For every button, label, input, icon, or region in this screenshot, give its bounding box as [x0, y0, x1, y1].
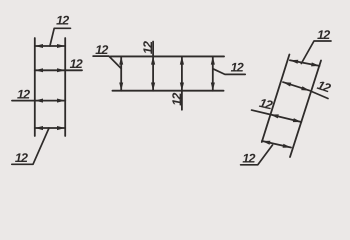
- leader for dim 4 (middle ladder): [213, 69, 245, 75]
- leader for dim 4 (left ladder): [12, 128, 49, 164]
- dimension line 4 (left ladder): [35, 127, 65, 129]
- leader for dim 1 (middle ladder): [93, 56, 121, 68]
- leader for dim 1 (right ladder): [301, 41, 331, 64]
- dimension line 1 (right ladder): [290, 60, 320, 66]
- extension line right rail (left ladder): [64, 38, 66, 136]
- arrowhead 4L (left ladder): [35, 126, 43, 130]
- svg-text:12: 12: [70, 57, 83, 71]
- dimension line 4 (middle ladder): [212, 56, 214, 90]
- arrowhead 2T (middle ladder): [151, 56, 155, 64]
- dimension line 2 (left ladder): [35, 69, 82, 71]
- dimension line 4 (right ladder): [262, 141, 291, 148]
- arrowhead 3R (right ladder): [293, 118, 302, 122]
- leader for dim 4 (right ladder): [241, 145, 273, 165]
- arrowhead 1R (left ladder): [57, 44, 65, 48]
- arrowhead 2L (left ladder): [35, 68, 43, 72]
- svg-text:12: 12: [170, 93, 184, 106]
- svg-text:12: 12: [56, 14, 69, 28]
- arrowhead 1B (middle ladder): [119, 83, 123, 91]
- dimension line 1 (middle ladder): [120, 56, 122, 90]
- arrowhead 4B (middle ladder): [211, 83, 215, 91]
- arrowhead 4R (left ladder): [57, 126, 65, 130]
- arrowhead 1T (middle ladder): [119, 56, 123, 64]
- dimension line 3 with extension below (middle ladder): [181, 56, 183, 109]
- dimension line 3 (left ladder): [12, 100, 65, 102]
- arrowhead 4T (middle ladder): [211, 56, 215, 64]
- dimension line 2 with extension above (middle ladder): [152, 42, 154, 91]
- extension line left rail (right ladder): [262, 55, 290, 143]
- arrowhead 3B (middle ladder): [180, 83, 184, 91]
- arrowhead 1L (left ladder): [35, 44, 43, 48]
- leader for dim 1 (left ladder): [50, 28, 71, 46]
- svg-text:12: 12: [317, 28, 330, 42]
- arrowhead 3T (middle ladder): [180, 56, 184, 64]
- arrowhead 2L (right ladder): [283, 82, 291, 86]
- arrowhead 3L (left ladder): [35, 99, 43, 103]
- extension line bottom (middle ladder): [113, 90, 224, 92]
- arrowhead 4L (right ladder): [262, 141, 270, 145]
- arrowhead 1R (right ladder): [311, 62, 319, 66]
- svg-text:12: 12: [95, 43, 108, 57]
- dimension line 3 with extension (right ladder): [252, 110, 302, 122]
- svg-text:12: 12: [15, 151, 28, 165]
- arrowhead 2R (left ladder): [57, 68, 65, 72]
- arrowhead 2B (middle ladder): [151, 83, 155, 91]
- svg-text:12: 12: [231, 61, 244, 75]
- arrowhead 3R (left ladder): [57, 99, 65, 103]
- dimension line 1 (left ladder): [35, 45, 65, 47]
- extension line left rail (left ladder): [34, 38, 36, 136]
- dimension line 2 with extension (right ladder): [283, 82, 328, 98]
- arrowhead 2R (right ladder): [301, 86, 309, 90]
- svg-text:12: 12: [17, 87, 30, 101]
- svg-text:12: 12: [242, 151, 255, 165]
- arrowhead 3L (right ladder): [270, 114, 279, 118]
- arrowhead 4R (right ladder): [283, 144, 291, 148]
- arrowhead 1L (right ladder): [290, 60, 298, 64]
- extension line top (middle ladder): [111, 55, 225, 57]
- extension line right rail (right ladder): [290, 61, 321, 158]
- svg-text:12: 12: [141, 41, 155, 54]
